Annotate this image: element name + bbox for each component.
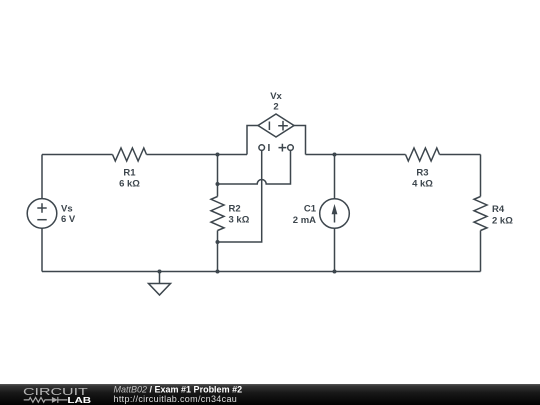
C1 arrow head: [332, 204, 338, 214]
wire R2 top lead from top rail: [217, 155, 219, 197]
current source C1: [320, 199, 350, 229]
resistor R2: [211, 197, 224, 231]
svg-text:2: 2: [273, 102, 278, 113]
svg-text:6 V: 6 V: [61, 214, 76, 225]
node C1 at bottom rail: [333, 270, 337, 274]
svg-text:2 mA: 2 mA: [293, 215, 316, 226]
wire bottom rail: [42, 271, 481, 273]
C1 arrow shaft: [334, 207, 336, 223]
svg-text:http://circuitlab.com/cn34cau: http://circuitlab.com/cn34cau: [114, 394, 238, 404]
wire left branch above Vs: [41, 155, 43, 199]
svg-text:LAB: LAB: [67, 395, 91, 405]
logo squiggle wire: [24, 398, 52, 403]
svg-text:6 kΩ: 6 kΩ: [119, 179, 140, 190]
probe plus label: [279, 144, 287, 152]
wire sense top: R2 top junction to plus probe with hop: [218, 150, 291, 184]
voltage source Vs: [27, 199, 57, 229]
wire Vx right terminal to riser: [294, 126, 306, 155]
svg-text:R1: R1: [123, 168, 136, 179]
wire left branch below Vs: [41, 228, 43, 271]
node R1 right junction: [216, 153, 220, 157]
Vx minus bar inside diamond: [268, 122, 270, 131]
wire riser to C1 node: [306, 154, 335, 156]
svg-text:3 kΩ: 3 kΩ: [229, 215, 250, 226]
ground symbol: [149, 284, 171, 296]
Vs minus sign: [37, 219, 46, 221]
wire C1 top lead: [334, 155, 336, 199]
wire C1 bottom lead: [334, 228, 336, 271]
svg-text:C1: C1: [304, 204, 317, 215]
svg-text:R3: R3: [416, 168, 428, 179]
wire R3 right to top-right corner: [440, 154, 481, 156]
Vx plus probe terminal: [288, 145, 294, 151]
svg-text:R4: R4: [492, 204, 505, 215]
node R2 bottom sense junction: [216, 240, 220, 244]
wire riser to Vx left terminal: [247, 126, 258, 155]
svg-text:Vx: Vx: [270, 91, 282, 102]
wire R2 bottom lead to bottom rail: [217, 231, 219, 272]
svg-text:Vs: Vs: [61, 204, 73, 215]
Vx minus probe terminal: [259, 145, 265, 151]
logo diode symbol: [52, 397, 58, 403]
resistor R1: [113, 148, 147, 161]
svg-text:MattB02 / Exam #1 Problem #2: MattB02 / Exam #1 Problem #2: [114, 385, 243, 395]
wire R1 right to Vx left riser: [147, 154, 248, 156]
dependent source Vx diamond: [258, 114, 294, 137]
Vx plus inside diamond: [278, 121, 288, 131]
svg-text:R2: R2: [229, 204, 241, 215]
resistor R3: [406, 148, 440, 161]
resistor R4: [474, 197, 487, 231]
wire C1 node to R3 left: [335, 154, 406, 156]
wire top-left: Vs top to R1 left: [42, 154, 113, 156]
node R2 top sense junction: [216, 182, 220, 186]
svg-text:2 kΩ: 2 kΩ: [492, 216, 513, 227]
svg-text:4 kΩ: 4 kΩ: [412, 179, 433, 190]
wire sense bottom: minus probe down to R2 bottom junction: [218, 150, 262, 242]
probe minus bar label: [268, 144, 270, 151]
node R2 at bottom rail: [216, 270, 220, 274]
wire right branch top lead of R4: [480, 155, 482, 197]
node at top wire and C1 branch: [333, 153, 337, 157]
node ground junction: [158, 270, 162, 274]
wire R4 bottom to bottom-right corner: [480, 231, 482, 272]
Vs plus sign: [37, 203, 46, 212]
ground stem: [159, 272, 161, 284]
